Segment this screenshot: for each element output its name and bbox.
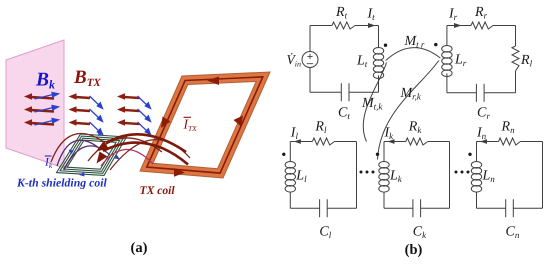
wire TX-loop right <box>378 26 380 93</box>
K-th shielding coil spiral <box>57 134 127 175</box>
wire TX-loop left (Vin branch) <box>309 26 311 93</box>
current arrow It <box>368 23 376 28</box>
wire RX-loop right with resistor Rl <box>512 26 519 93</box>
field line arc 6 <box>110 140 190 170</box>
wire loop-l top with resistor Rl <box>290 138 356 145</box>
TX current arrow bottom <box>174 168 185 177</box>
wire loop-n right <box>542 142 544 209</box>
wire RX-loop bottom with capacitor Cr <box>447 84 516 102</box>
current arrow Il <box>294 139 301 144</box>
field line arc 4 <box>101 149 153 166</box>
flux arrow A (thick) <box>106 134 186 152</box>
TX coil ribbon <box>140 72 270 178</box>
inductor Ln <box>471 162 481 193</box>
svg-text:TX coil: TX coil <box>140 184 176 197</box>
wire TX-loop bottom with capacitor Ct <box>310 83 379 101</box>
wire loop-l right <box>356 142 358 209</box>
TX coil current path <box>147 77 263 173</box>
dot Ll polarity <box>282 153 285 156</box>
field line arc 5 <box>88 138 162 161</box>
ellipsis dots between loop-l and loop-k <box>360 171 375 174</box>
wire TX-loop top with resistor Rt <box>310 22 379 29</box>
wire loop-k right <box>449 142 451 209</box>
mutual inductance Mtr arc <box>386 48 441 61</box>
inductor Lt <box>373 48 383 79</box>
field arrows B_TX (dark red, pointing left) <box>31 97 140 125</box>
mutual coupling curve Mrk <box>378 61 439 160</box>
dot Lt polarity <box>384 44 387 47</box>
field line arc 2 <box>51 134 104 162</box>
field line arc 3 <box>64 146 110 170</box>
inductor Lk <box>379 162 389 193</box>
wire loop-l left <box>289 142 291 209</box>
wire loop-k left <box>383 142 385 209</box>
svg-text:(b): (b) <box>405 242 423 258</box>
field line arc 1 <box>57 140 99 166</box>
wire loop-k bottom with capacitor Ck <box>384 199 450 217</box>
current arrow Ik <box>388 139 395 144</box>
TX current arrow top <box>207 77 219 86</box>
ellipsis dots between loop-k and loop-n <box>455 171 470 174</box>
wire loop-l bottom with capacitor Cl <box>290 199 356 217</box>
wire loop-n top with resistor Rn <box>477 138 543 145</box>
current arrow In <box>480 139 487 144</box>
current arrow Ir <box>454 23 462 28</box>
inductor Ll <box>285 162 295 193</box>
inductor Lr <box>442 46 452 77</box>
wire RX-loop left <box>446 26 448 93</box>
shielding plane <box>6 40 64 168</box>
wire loop-n bottom with capacitor Cn <box>477 199 543 217</box>
TX current arrow left <box>161 117 171 129</box>
svg-text:(a): (a) <box>131 240 148 256</box>
wire loop-n left <box>476 142 478 209</box>
flux arrow B (thick) <box>103 143 188 165</box>
wire RX-loop top with resistor Rr <box>447 22 516 29</box>
mutual coupling curve Mtk <box>363 63 386 142</box>
dot Ln polarity <box>468 153 471 156</box>
wire loop-k top with resistor Rk <box>384 138 450 145</box>
shielding coil current arrows <box>69 132 121 177</box>
dot Lk polarity <box>376 153 379 156</box>
dot Lr polarity <box>434 43 437 46</box>
TX current arrow right <box>234 116 244 127</box>
svg-text:K-th shielding coil: K-th shielding coil <box>16 176 108 190</box>
source Vin <box>302 52 318 68</box>
field arrows B_k (blue) <box>35 92 151 134</box>
